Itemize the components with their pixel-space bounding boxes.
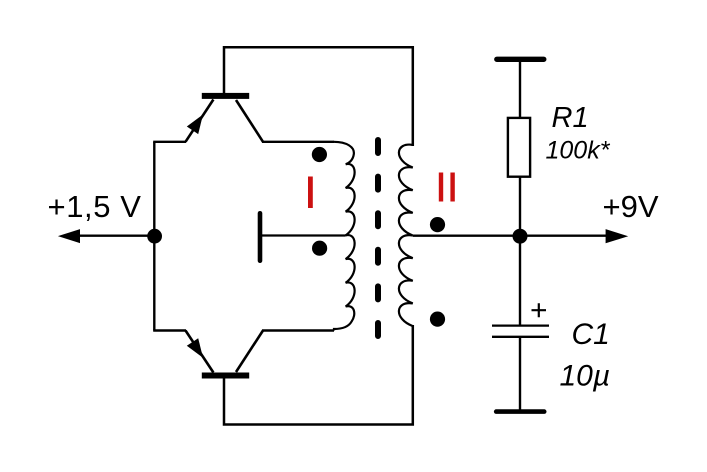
wire: top bus from Q1 base up and over to winding II top lead (224, 47, 413, 146)
transformer core (dashed) (375, 140, 381, 337)
transistor Q1 emitter lead (186, 100, 214, 142)
svg-text:R1: R1 (552, 102, 589, 134)
resistor R1 body (508, 118, 530, 177)
wire: Q2 collector wire to winding I bottom (262, 329, 334, 331)
wire: Q1 collector wire to winding I top (262, 141, 334, 143)
svg-text:+9V: +9V (603, 189, 659, 224)
wire: Q2 emitter wire (153, 329, 186, 331)
terminal bar bottom (C1 bottom) (496, 409, 544, 414)
svg-text:10µ: 10µ (560, 360, 611, 393)
terminal bar top (R1 top) (497, 57, 544, 62)
wire: C1 bottom lead (519, 338, 521, 410)
node: output junction dot (513, 229, 528, 244)
svg-text:C1: C1 (572, 318, 610, 351)
transistor Q1 emitter arrow (187, 115, 203, 135)
wire: output line from winding II centre tap to +9V (413, 234, 608, 236)
label II (red, winding II) bar 1 (439, 173, 443, 202)
terminal bar (battery return) at winding I centre tap (258, 211, 263, 263)
arrowhead of +9V terminal (606, 229, 629, 243)
C1 polarity plus sign (532, 303, 547, 317)
winding II polarity dot (top) (430, 217, 445, 232)
transistor Q2 base bar (202, 373, 249, 379)
wire: R1 bottom lead (519, 176, 521, 237)
transistor Q2 collector lead (236, 331, 263, 373)
wire: C1 top lead (519, 236, 521, 325)
transformer winding II (secondary, right) (399, 145, 413, 327)
wire: Q1 emitter wire (153, 141, 186, 143)
wire: +1,5V feed line (78, 234, 156, 236)
label I (red, winding I) (308, 177, 313, 209)
wire: bottom bus from Q2 base down and over to winding II bottom lead (224, 325, 413, 425)
transformer winding I (primary, left) (334, 142, 355, 331)
svg-text:+1,5 V: +1,5 V (48, 189, 142, 224)
transistor Q2 emitter arrow (187, 338, 203, 358)
label II (red, winding II) bar 2 (450, 173, 454, 202)
arrowhead of +1,5V terminal (58, 229, 80, 243)
winding I polarity dot (top) (312, 147, 327, 162)
winding I polarity dot (bottom) (312, 241, 327, 256)
node: +1,5V junction dot (147, 229, 162, 244)
winding II polarity dot (bottom) (430, 312, 445, 327)
wire: left supply rail (153, 142, 155, 331)
wire: R1 top lead (519, 61, 521, 117)
capacitor C1 plate top (492, 325, 549, 327)
wire: winding I centre tap (262, 234, 346, 236)
transistor Q1 collector lead (236, 100, 263, 142)
transistor Q2 emitter lead (186, 331, 214, 373)
transistor Q1 base bar (202, 93, 249, 99)
capacitor C1 plate bottom (492, 336, 549, 338)
svg-text:100k*: 100k* (546, 137, 611, 165)
